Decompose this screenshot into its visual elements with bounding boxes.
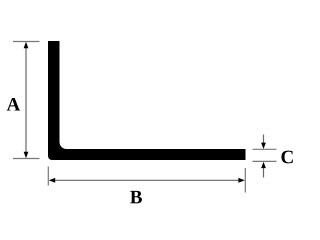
dim A bottom arrow xyxy=(24,152,29,158)
dim C lower arrow xyxy=(261,162,266,168)
dim C lower arrow stem xyxy=(263,167,265,178)
label A xyxy=(7,98,20,111)
dim B right extension line xyxy=(244,168,246,193)
label C xyxy=(281,151,292,164)
dim B line xyxy=(53,179,241,181)
dim A top arrow xyxy=(24,42,29,48)
dim C upper arrow xyxy=(261,143,266,149)
dim B left extension line xyxy=(47,167,49,186)
label B xyxy=(130,191,142,203)
dim A line xyxy=(25,46,27,154)
dim A bottom extension line xyxy=(13,158,40,160)
L-angle profile xyxy=(48,41,246,160)
dim C top extension line xyxy=(253,148,277,150)
dim B right arrow xyxy=(238,178,244,183)
dim C bottom extension line xyxy=(253,160,277,162)
dim B left arrow xyxy=(49,178,55,183)
dim C upper arrow stem xyxy=(263,135,265,145)
dim A top extension line xyxy=(13,41,40,43)
